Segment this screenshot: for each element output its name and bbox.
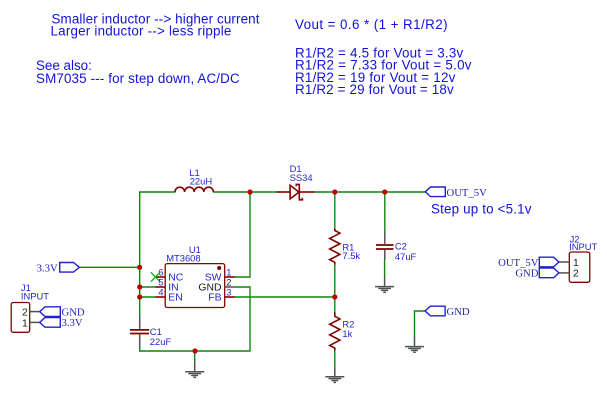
- wire C2 bottom: [384, 260, 386, 277]
- global label 3.3V at J1: [40, 317, 83, 329]
- note: see-also text: [36, 58, 240, 86]
- junction top wire / R1: [332, 189, 337, 194]
- U1 pin 5 IN: [156, 277, 179, 293]
- svg-text:FB: FB: [208, 293, 221, 304]
- junction EN / left vertical: [137, 294, 142, 299]
- J1 pin 1 stub: [30, 321, 40, 323]
- J2 pin 2 stub: [559, 272, 569, 274]
- ground under GND label: [405, 337, 424, 352]
- capacitor C2: [376, 231, 417, 262]
- note: R1/R2 ratio table: [295, 46, 472, 98]
- wire top right (D1 to OUT_5V): [315, 191, 426, 193]
- wire 3.3V to vertical: [79, 266, 139, 268]
- svg-text:R1/R2 = 29 for Vout = 18v: R1/R2 = 29 for Vout = 18v: [295, 82, 454, 97]
- J1 pin 2 stub: [30, 311, 40, 313]
- U1 pin 4 EN: [156, 287, 183, 303]
- no-connect X on pin 6: [151, 272, 160, 281]
- svg-text:2: 2: [226, 277, 231, 287]
- wire IN pin: [140, 286, 156, 288]
- svg-text:SM7035 --- for step down, AC/D: SM7035 --- for step down, AC/DC: [36, 71, 240, 86]
- U1 pin 1 SW: [205, 267, 235, 283]
- svg-text:2: 2: [573, 269, 579, 280]
- global label GND at J2: [515, 268, 559, 280]
- svg-text:1: 1: [226, 267, 231, 277]
- wire top left horizontal: [140, 191, 175, 193]
- wire R2 top: [334, 297, 336, 313]
- svg-text:Step up to <5.1v: Step up to <5.1v: [431, 201, 532, 216]
- J2 pin 1 stub: [559, 261, 569, 263]
- global label GND right middle: [425, 306, 470, 318]
- global label OUT_5V at top: [425, 187, 487, 199]
- junction FB / R1-R2: [332, 294, 337, 299]
- svg-text:OUT_5V: OUT_5V: [447, 187, 488, 199]
- svg-text:1k: 1k: [342, 328, 352, 339]
- wire FB horizontal: [235, 296, 335, 298]
- junction IN / left vertical: [137, 284, 142, 289]
- svg-text:5: 5: [158, 277, 163, 287]
- svg-text:1: 1: [22, 318, 28, 329]
- wire EN pin: [140, 296, 156, 298]
- svg-text:3.3V: 3.3V: [62, 317, 83, 329]
- U1 pin 3 FB: [208, 287, 234, 303]
- svg-text:3: 3: [226, 287, 231, 297]
- svg-text:SS34: SS34: [290, 172, 313, 183]
- ground under bottom wire: [194, 351, 196, 362]
- junction bottom wire / ground: [192, 348, 197, 353]
- svg-text:GND: GND: [515, 268, 538, 280]
- svg-text:6: 6: [158, 267, 163, 277]
- svg-text:INPUT: INPUT: [21, 290, 49, 301]
- ground under C2: [375, 277, 394, 292]
- capacitor C1: [130, 317, 172, 349]
- svg-text:Vout = 0.6 * (1 + R1/R2): Vout = 0.6 * (1 + R1/R2): [295, 17, 448, 32]
- svg-text:INPUT: INPUT: [569, 241, 597, 252]
- wire C2 top: [384, 192, 386, 232]
- resistor R1: [330, 229, 361, 265]
- wire top middle (L1 to D1): [213, 191, 276, 193]
- resistor R2: [330, 313, 355, 351]
- U1 pin 6 NC: [156, 267, 184, 283]
- svg-text:22uH: 22uH: [190, 176, 212, 187]
- note: step up annotation: [431, 201, 532, 216]
- wire R1 top: [334, 192, 336, 229]
- svg-text:22uF: 22uF: [150, 336, 172, 347]
- wire GND pin drop: [235, 287, 250, 351]
- note: Vout formula: [295, 17, 448, 32]
- wire GND label drop: [415, 311, 426, 337]
- wire bottom horizontal: [140, 349, 250, 352]
- wire SW riser: [235, 192, 250, 277]
- U1 pin 2 GND: [198, 277, 234, 293]
- IC U1 MT3608: [165, 244, 225, 307]
- global label GND at J1: [40, 306, 85, 318]
- svg-text:EN: EN: [168, 293, 182, 304]
- ground under R2: [325, 367, 344, 382]
- svg-text:GND: GND: [447, 306, 470, 318]
- svg-text:C2: C2: [395, 241, 407, 252]
- wire R2 bottom: [334, 351, 336, 368]
- svg-text:2: 2: [22, 308, 28, 319]
- connector J1: [11, 282, 49, 333]
- global label 3.3V at left: [37, 262, 80, 274]
- note: inductor guidance text: [51, 11, 260, 38]
- svg-text:7.5k: 7.5k: [342, 250, 360, 261]
- junction top wire / C2: [382, 189, 387, 194]
- svg-text:47uF: 47uF: [395, 251, 417, 262]
- svg-text:3.3V: 3.3V: [37, 262, 58, 274]
- svg-text:4: 4: [158, 287, 163, 297]
- junction top wire / SW riser: [247, 189, 252, 194]
- svg-text:1: 1: [573, 258, 579, 269]
- connector J2: [569, 234, 597, 283]
- wire left vertical: [139, 192, 141, 317]
- junction 3.3V / left vertical: [137, 265, 142, 270]
- svg-text:MT3608: MT3608: [166, 253, 200, 264]
- diode D1: [277, 163, 315, 200]
- inductor L1: [175, 167, 213, 192]
- svg-text:Larger inductor --> less rippl: Larger inductor --> less ripple: [51, 23, 232, 38]
- global label OUT_5V at J2: [498, 257, 559, 269]
- wire R1 bottom: [334, 265, 336, 298]
